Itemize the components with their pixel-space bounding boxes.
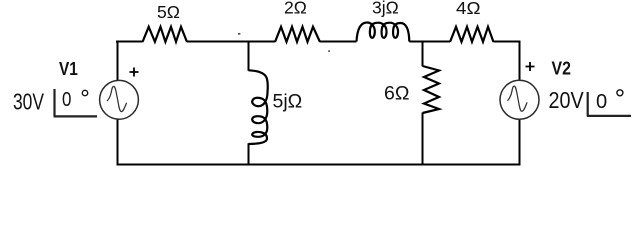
svg-text:2Ω: 2Ω	[284, 0, 307, 18]
svg-text:6Ω: 6Ω	[384, 83, 409, 105]
svg-text:4Ω: 4Ω	[456, 0, 481, 18]
svg-text:30V: 30V	[13, 89, 44, 115]
svg-text:V1: V1	[59, 59, 78, 79]
svg-text:3jΩ: 3jΩ	[372, 0, 399, 18]
svg-text:V2: V2	[552, 58, 571, 78]
svg-text:0: 0	[62, 89, 71, 111]
svg-text:20V: 20V	[549, 87, 584, 113]
svg-text:5jΩ: 5jΩ	[273, 91, 303, 113]
svg-text:0: 0	[596, 90, 607, 113]
svg-text:5Ω: 5Ω	[157, 2, 180, 22]
